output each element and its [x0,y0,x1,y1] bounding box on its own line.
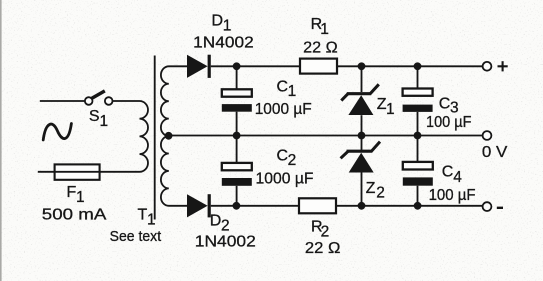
resistor R1 [300,59,337,74]
fuse F1 [55,164,100,179]
svg-text:1: 1 [288,83,297,100]
label F1 [67,184,85,206]
minus sign [497,207,503,209]
svg-text:1: 1 [223,17,232,34]
svg-text:See text: See text [110,229,162,245]
wire: top rail from D1 to + terminal [211,65,483,67]
svg-text:T: T [138,207,148,224]
svg-text:C: C [442,164,454,181]
diode D2 [187,194,211,217]
svg-text:2: 2 [376,185,385,202]
svg-text:1: 1 [147,212,156,229]
wire: middle rail centre tap to 0V terminal [169,135,483,137]
svg-text:S: S [89,108,100,125]
svg-text:2: 2 [221,217,230,234]
node: Z2 / R2 junction [358,202,366,210]
svg-text:2: 2 [321,224,330,241]
svg-text:1: 1 [76,189,85,206]
label C4 [442,164,462,186]
svg-text:C: C [277,147,289,164]
svg-text:1000 µF: 1000 µF [256,170,314,187]
transformer T1 secondary winding [161,66,187,206]
svg-text:1N4002: 1N4002 [195,233,256,250]
label C2 [277,147,297,169]
node: secondary centre tap [165,132,173,140]
zener diode Z2 [341,136,380,206]
node: C3 top junction [414,62,422,70]
transformer T1 primary winding [140,101,149,172]
svg-text:4: 4 [453,169,462,186]
label R1 [311,16,329,38]
AC source sine-wave symbol [43,124,71,141]
label D1 [212,13,232,35]
label Z2 [366,180,385,202]
svg-text:1: 1 [386,101,395,118]
node: R1 / Z1 top junction [358,62,366,70]
switch S1 [85,91,113,105]
svg-text:22 Ω: 22 Ω [305,240,341,257]
svg-text:1N4002: 1N4002 [193,35,254,52]
terminal + [483,62,492,71]
node: C4 bottom junction [414,202,422,210]
label D2 [210,212,230,234]
svg-text:Z: Z [366,180,376,197]
node: C1 bottom junction [233,132,241,140]
svg-text:C: C [439,95,451,112]
node: Z1 / Z2 junction [358,132,366,140]
resistor R2 [299,198,336,213]
capacitor C4 [403,136,433,206]
capacitor C2 [222,136,252,206]
capacitor C1 [222,66,252,135]
wire: left lead through fuse F1 to transformer primary [38,171,140,173]
diode D1 [187,55,211,78]
node: D1 / C1 junction [233,62,241,70]
plus sign [498,61,508,71]
terminal - [483,202,492,211]
svg-text:2: 2 [288,152,297,169]
label C1 [277,78,297,99]
svg-text:100 µF: 100 µF [426,114,472,131]
node: C2 bottom junction [233,202,241,210]
wire: left lead to switch S1 [40,100,85,102]
svg-text:D: D [210,212,222,229]
scan edge artifact left [0,0,2,281]
svg-text:D: D [212,13,224,30]
node: C3 / C4 junction [414,132,422,140]
label R2 [311,219,329,241]
svg-text:1: 1 [320,21,329,38]
capacitor C3 [403,66,433,135]
svg-text:0 V: 0 V [482,144,508,161]
svg-text:500 mA: 500 mA [42,207,107,224]
svg-text:22 Ω: 22 Ω [303,39,338,56]
svg-text:100 µF: 100 µF [429,187,476,204]
svg-text:1: 1 [100,113,109,130]
label Z1 [377,96,395,118]
label T1 [138,207,156,229]
svg-text:F: F [67,184,77,201]
transformer T1 core [154,56,156,220]
svg-text:1000 µF: 1000 µF [255,101,312,118]
terminal 0V [483,131,492,140]
zener diode Z1 [341,66,379,135]
svg-text:C: C [277,78,289,95]
label C3 [439,95,459,116]
wire: bottom rail from D2 to - terminal [211,205,483,207]
label S1 [89,108,108,130]
wire: switch S1 to transformer primary [113,100,140,102]
